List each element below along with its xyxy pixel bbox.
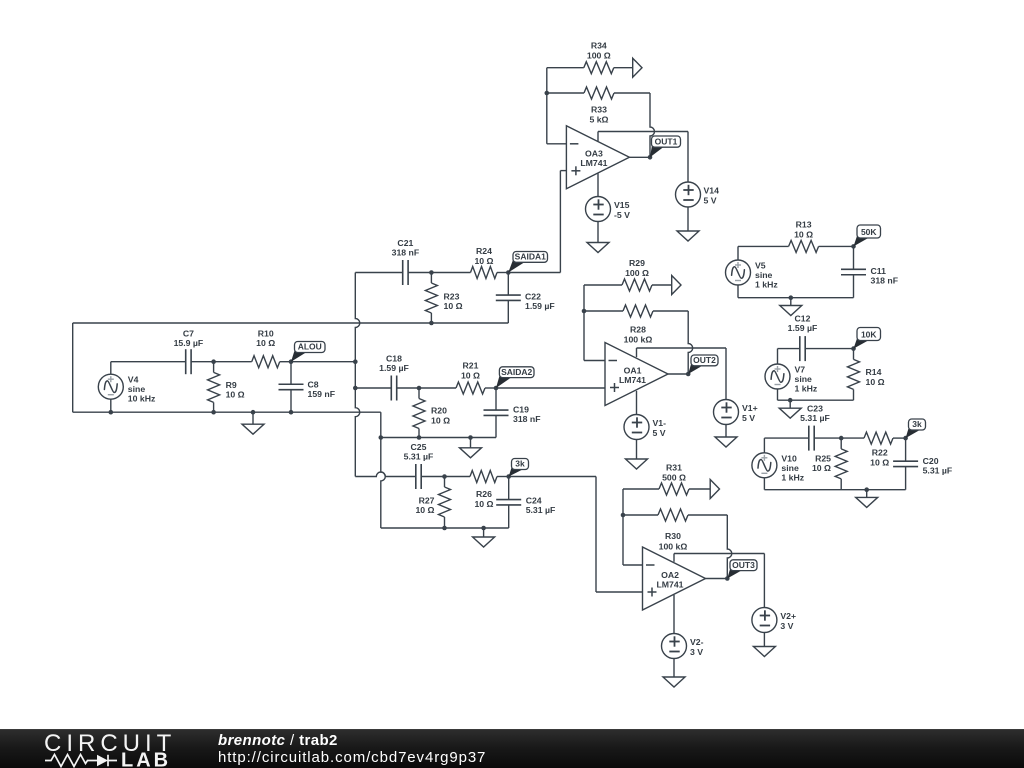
svg-text:3k: 3k	[912, 419, 922, 429]
svg-text:15.9 µF: 15.9 µF	[174, 338, 204, 348]
svg-text:1.59 µF: 1.59 µF	[379, 363, 409, 373]
svg-text:sine: sine	[795, 374, 813, 384]
svg-text:C11: C11	[871, 266, 887, 276]
svg-text:LM741: LM741	[580, 158, 607, 168]
svg-text:OA1: OA1	[624, 365, 642, 375]
svg-text:C7: C7	[183, 329, 194, 339]
svg-text:R23: R23	[444, 292, 460, 302]
svg-text:1 kHz: 1 kHz	[755, 280, 778, 290]
svg-text:10 Ω: 10 Ω	[415, 505, 434, 515]
svg-text:10K: 10K	[861, 330, 877, 340]
svg-text:V15: V15	[614, 200, 630, 210]
svg-text:SAIDA1: SAIDA1	[515, 252, 546, 262]
svg-text:V2+: V2+	[780, 611, 796, 621]
svg-text:1 kHz: 1 kHz	[795, 384, 818, 394]
svg-text:R22: R22	[872, 448, 888, 458]
svg-text:318 nF: 318 nF	[871, 276, 899, 286]
svg-text:3k: 3k	[515, 459, 525, 469]
svg-text:500 Ω: 500 Ω	[662, 473, 686, 483]
svg-text:R20: R20	[431, 406, 447, 416]
svg-text:10 kHz: 10 kHz	[128, 394, 156, 404]
svg-text:5.31 µF: 5.31 µF	[923, 466, 953, 476]
svg-text:10 Ω: 10 Ω	[474, 256, 493, 266]
svg-text:10 Ω: 10 Ω	[256, 338, 275, 348]
svg-text:V2-: V2-	[690, 637, 704, 647]
svg-text:sine: sine	[755, 270, 773, 280]
svg-text:C21: C21	[397, 238, 413, 248]
svg-text:10 Ω: 10 Ω	[461, 371, 480, 381]
svg-text:V10: V10	[781, 453, 797, 463]
svg-text:C23: C23	[807, 404, 823, 414]
svg-text:5.31 µF: 5.31 µF	[800, 413, 830, 423]
svg-text:5 V: 5 V	[653, 428, 666, 438]
svg-text:100 Ω: 100 Ω	[587, 51, 611, 61]
svg-text:OUT2: OUT2	[693, 355, 716, 365]
svg-text:C22: C22	[525, 292, 541, 302]
svg-text:10 Ω: 10 Ω	[431, 416, 450, 426]
svg-text:100 kΩ: 100 kΩ	[659, 542, 688, 552]
svg-text:10 Ω: 10 Ω	[444, 301, 463, 311]
svg-text:3 V: 3 V	[780, 621, 793, 631]
svg-text:5 kΩ: 5 kΩ	[589, 115, 608, 125]
svg-text:V5: V5	[755, 261, 766, 271]
svg-text:C24: C24	[526, 496, 542, 506]
svg-text:C12: C12	[795, 314, 811, 324]
svg-text:R33: R33	[591, 105, 607, 115]
svg-text:R27: R27	[419, 496, 435, 506]
svg-text:R34: R34	[591, 41, 607, 51]
svg-text:5 V: 5 V	[704, 196, 717, 206]
svg-text:V7: V7	[795, 365, 806, 375]
svg-text:10 Ω: 10 Ω	[794, 230, 813, 240]
svg-text:10 Ω: 10 Ω	[226, 390, 245, 400]
svg-text:V1+: V1+	[742, 403, 758, 413]
svg-text:R26: R26	[476, 489, 492, 499]
svg-text:V4: V4	[128, 375, 139, 385]
svg-text:C19: C19	[513, 405, 529, 415]
svg-text:10 Ω: 10 Ω	[866, 377, 885, 387]
svg-text:SAIDA2: SAIDA2	[501, 367, 532, 377]
svg-text:10 Ω: 10 Ω	[870, 458, 889, 468]
svg-text:OA3: OA3	[585, 149, 603, 159]
svg-text:C18: C18	[386, 354, 402, 364]
svg-text:R21: R21	[463, 361, 479, 371]
svg-text:50K: 50K	[861, 227, 877, 237]
svg-text:OUT1: OUT1	[655, 136, 678, 146]
svg-text:OA2: OA2	[661, 570, 679, 580]
svg-text:-5 V: -5 V	[614, 210, 630, 220]
svg-text:R29: R29	[629, 258, 645, 268]
svg-text:1.59 µF: 1.59 µF	[788, 323, 818, 333]
svg-text:ALOU: ALOU	[298, 342, 322, 352]
svg-text:1.59 µF: 1.59 µF	[525, 301, 555, 311]
svg-text:318 nF: 318 nF	[513, 414, 541, 424]
svg-text:R13: R13	[796, 220, 812, 230]
svg-text:100 Ω: 100 Ω	[625, 268, 649, 278]
svg-text:V14: V14	[704, 186, 720, 196]
svg-text:R28: R28	[630, 325, 646, 335]
svg-text:100 kΩ: 100 kΩ	[624, 335, 653, 345]
svg-text:OUT3: OUT3	[732, 560, 755, 570]
svg-text:318 nF: 318 nF	[392, 248, 420, 258]
svg-text:C25: C25	[411, 442, 427, 452]
svg-text:R30: R30	[665, 531, 681, 541]
svg-text:sine: sine	[781, 463, 799, 473]
svg-text:5.31 µF: 5.31 µF	[404, 452, 434, 462]
svg-text:5 V: 5 V	[742, 413, 755, 423]
svg-text:159 nF: 159 nF	[308, 389, 336, 399]
svg-text:C20: C20	[923, 456, 939, 466]
svg-text:10 Ω: 10 Ω	[812, 463, 831, 473]
svg-text:R31: R31	[666, 463, 682, 473]
svg-text:3 V: 3 V	[690, 647, 703, 657]
svg-text:V1-: V1-	[653, 418, 667, 428]
svg-text:5.31 µF: 5.31 µF	[526, 505, 556, 515]
svg-text:R25: R25	[815, 454, 831, 464]
svg-text:LM741: LM741	[619, 375, 646, 385]
svg-text:10 Ω: 10 Ω	[474, 499, 493, 509]
svg-text:R24: R24	[476, 246, 492, 256]
svg-text:C8: C8	[308, 380, 319, 390]
svg-text:R14: R14	[866, 367, 882, 377]
svg-text:sine: sine	[128, 384, 146, 394]
svg-text:LM741: LM741	[656, 579, 683, 589]
svg-text:1 kHz: 1 kHz	[781, 472, 804, 482]
svg-text:R10: R10	[258, 329, 274, 339]
svg-text:R9: R9	[226, 380, 237, 390]
